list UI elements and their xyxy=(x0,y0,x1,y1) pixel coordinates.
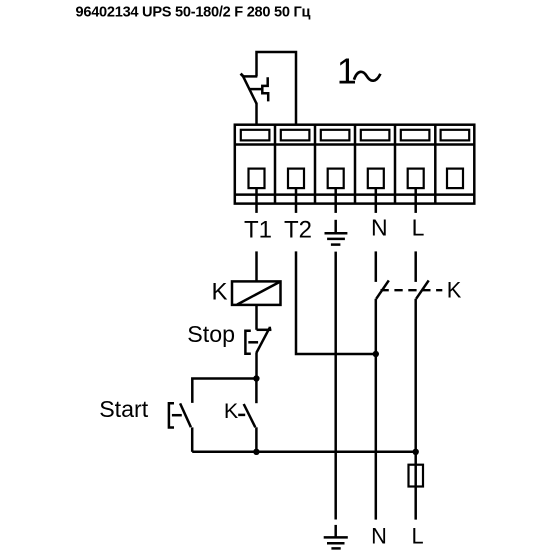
wire L through fuse xyxy=(414,452,417,520)
slot 4 xyxy=(361,130,390,141)
terminal square 2 xyxy=(288,169,304,189)
aux contact K blade xyxy=(244,404,256,427)
slot 1 xyxy=(241,130,270,141)
terminal block divider 1 xyxy=(274,125,277,204)
start button bracket xyxy=(169,403,174,427)
terminal block divider 2 xyxy=(314,125,317,204)
svg-text:T1: T1 xyxy=(244,216,272,243)
stop button blade xyxy=(256,328,269,353)
terminal block divider 5 xyxy=(434,125,437,204)
svg-text:T2: T2 xyxy=(284,216,312,243)
ground symbol lower xyxy=(324,525,348,549)
terminal block line under slots xyxy=(235,143,474,146)
junction node C xyxy=(413,449,419,455)
wire stub terminal 4 xyxy=(375,188,378,213)
wire L lower xyxy=(414,299,417,452)
thermal element heater zigzag xyxy=(262,77,268,101)
ground symbol upper xyxy=(325,220,348,245)
coil K diagonal xyxy=(237,282,280,305)
wire start to bottom xyxy=(191,427,194,451)
terminal square 5 xyxy=(408,169,424,189)
junction node A xyxy=(253,375,259,381)
wire T1 below blade xyxy=(255,103,258,125)
svg-text:K: K xyxy=(211,279,227,306)
aux contact K linkage dash xyxy=(238,414,245,417)
junction node B xyxy=(253,449,259,455)
wire stub terminal 3 xyxy=(334,188,337,213)
svg-text:N: N xyxy=(371,215,388,241)
thermal element connector xyxy=(250,88,263,91)
wire N lower xyxy=(375,299,378,520)
wire junction to K contact xyxy=(255,379,258,404)
wire stub terminal 1 xyxy=(255,188,258,213)
thermal switch blade xyxy=(243,77,256,104)
terminal square 4 xyxy=(368,169,384,189)
svg-text:L: L xyxy=(412,215,425,241)
junction node D xyxy=(373,351,379,357)
svg-text:Stop: Stop xyxy=(187,321,235,347)
svg-text:K: K xyxy=(447,277,462,302)
main contact K2 blade xyxy=(416,280,429,298)
terminal square 3 xyxy=(328,169,344,189)
wire T2 down and right xyxy=(296,251,376,354)
wire T1 to coil xyxy=(255,251,258,281)
stop button plunger dash xyxy=(248,341,258,344)
start button blade xyxy=(180,403,191,427)
main contact K1 blade xyxy=(376,280,389,298)
wire stub terminal 5 xyxy=(414,188,417,213)
terminal square 1 xyxy=(249,169,265,189)
wire top loop T1-T2 xyxy=(257,52,297,125)
linkage dashed line xyxy=(381,289,443,291)
tilde of 1~ xyxy=(354,72,380,81)
wire K contact to bottom xyxy=(255,427,258,452)
slot 6 xyxy=(441,130,470,141)
wire stub terminal 2 xyxy=(295,188,298,213)
svg-text:1: 1 xyxy=(337,51,357,92)
wire L upper xyxy=(414,251,417,282)
fuse F1 xyxy=(409,465,424,487)
stop button contact tick xyxy=(269,327,272,330)
svg-text:96402134 UPS 50-180/2 F 280 50: 96402134 UPS 50-180/2 F 280 50 Гц xyxy=(76,5,311,21)
terminal block divider 4 xyxy=(394,125,397,204)
stop button bracket xyxy=(245,331,250,354)
thermal switch fixed contact stub xyxy=(243,75,258,78)
slot 5 xyxy=(401,130,430,141)
terminal block outer body xyxy=(235,125,474,204)
terminal square 6 xyxy=(447,169,463,189)
svg-text:N: N xyxy=(371,523,387,548)
wire branch to start xyxy=(192,379,256,403)
thermal switch barb xyxy=(241,74,245,78)
svg-text:L: L xyxy=(412,523,424,548)
svg-text:K: K xyxy=(224,399,239,423)
wire N upper xyxy=(375,251,378,282)
start button plunger dash xyxy=(172,414,182,417)
wire ground vertical xyxy=(334,252,337,520)
terminal block divider 3 xyxy=(354,125,357,204)
wire bottom horizontal xyxy=(192,451,416,454)
stop button top corner xyxy=(257,329,272,332)
svg-text:Start: Start xyxy=(99,396,149,422)
slot 2 xyxy=(281,130,310,141)
slot 3 xyxy=(321,130,350,141)
terminal block line above bottom xyxy=(235,193,474,196)
wire stop to junction xyxy=(255,353,258,379)
coil K body xyxy=(232,281,281,305)
wire coil to stop xyxy=(255,305,258,330)
